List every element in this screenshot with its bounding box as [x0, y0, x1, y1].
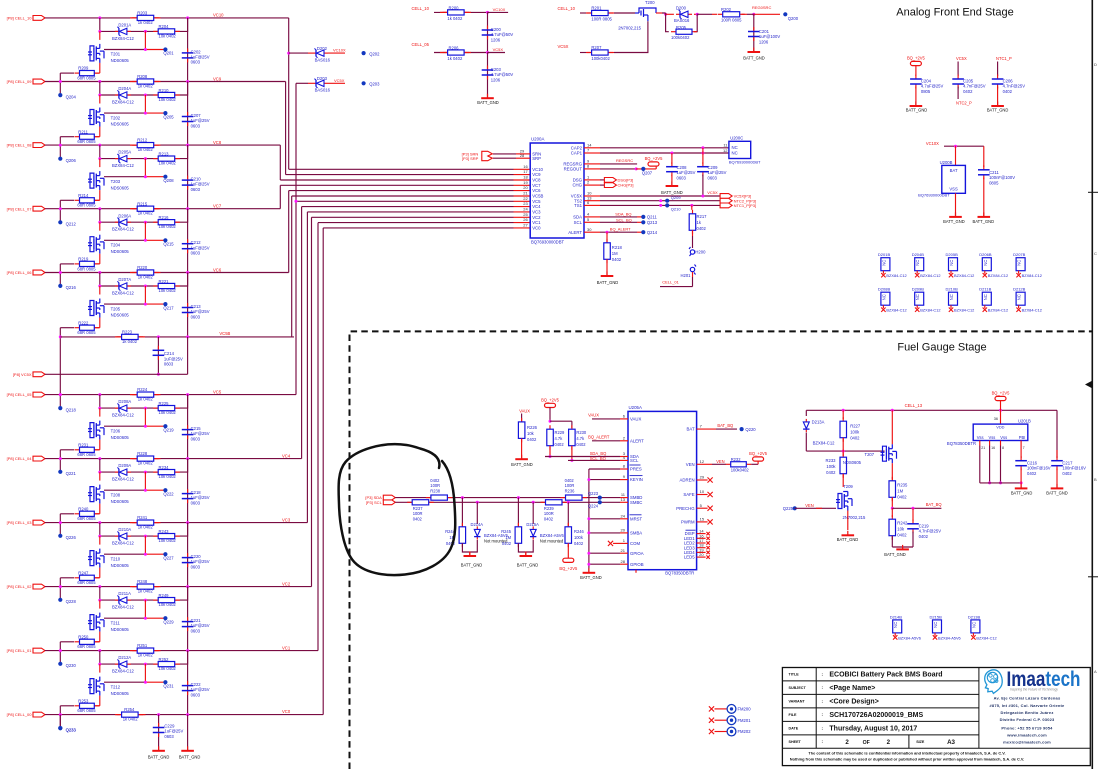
svg-text:BZX84-C12: BZX84-C12	[112, 477, 135, 482]
svg-text:0603: 0603	[191, 314, 201, 319]
svg-text:H201: H201	[680, 273, 691, 278]
svg-text:NDS0605: NDS0605	[843, 460, 862, 465]
svg-text:Q226: Q226	[66, 535, 77, 540]
svg-text:BATT_GND: BATT_GND	[1011, 491, 1033, 496]
svg-text:0402: 0402	[826, 470, 836, 475]
svg-text:R211: R211	[78, 129, 88, 134]
svg-text:0402: 0402	[502, 541, 512, 546]
svg-text:VC6: VC6	[532, 188, 541, 193]
svg-text:BZX84-C12: BZX84-C12	[112, 99, 135, 104]
svg-text:A3: A3	[947, 739, 955, 746]
svg-text:BZX84-C12: BZX84-C12	[886, 308, 906, 313]
svg-text:100k0402: 100k0402	[731, 467, 750, 472]
svg-text:CELL_01: CELL_01	[662, 280, 679, 285]
svg-text:NC: NC	[949, 294, 954, 300]
svg-text:SAFE: SAFE	[683, 492, 694, 497]
svg-text:NC: NC	[915, 294, 920, 300]
svg-text:KEYIN: KEYIN	[630, 477, 643, 482]
svg-text:36: 36	[994, 417, 998, 421]
svg-text:TS1: TS1	[574, 203, 582, 208]
svg-text:BATT_GND: BATT_GND	[973, 219, 995, 224]
svg-text:0402: 0402	[1027, 471, 1037, 476]
svg-text:0603: 0603	[191, 60, 201, 65]
svg-text:SIZE: SIZE	[916, 740, 925, 744]
svg-text:1M: 1M	[505, 535, 511, 540]
svg-text:NTC2_P: NTC2_P	[956, 100, 972, 105]
svg-text:NDS0605: NDS0605	[111, 563, 130, 568]
svg-text:BAS016: BAS016	[315, 88, 331, 93]
svg-text:1M: 1M	[612, 251, 618, 256]
svg-text:100k0402: 100k0402	[671, 35, 690, 40]
svg-text:SRP: SRP	[532, 156, 541, 161]
svg-text:BZX84-C12: BZX84-C12	[988, 308, 1008, 313]
svg-text:68R 0805: 68R 0805	[77, 330, 96, 335]
svg-text:1206: 1206	[759, 39, 769, 44]
svg-text:SCL: SCL	[630, 458, 639, 463]
svg-text:BZX84-C12: BZX84-C12	[1022, 308, 1042, 313]
svg-text:[P8] CELL_07: [P8] CELL_07	[7, 206, 33, 211]
svg-text:Q201: Q201	[163, 51, 174, 56]
svg-text:VAUX: VAUX	[630, 417, 642, 422]
svg-text:VC10: VC10	[532, 167, 543, 172]
svg-text:0402: 0402	[555, 442, 565, 447]
svg-text:0603: 0603	[191, 628, 201, 633]
svg-text:0402: 0402	[919, 534, 929, 539]
svg-text:BZX84-C12: BZX84-C12	[112, 605, 135, 610]
svg-text:0805: 0805	[989, 180, 999, 185]
svg-text:[P8] CELL_01: [P8] CELL_01	[7, 648, 33, 653]
svg-text:NC: NC	[1017, 260, 1022, 266]
svg-text:0603: 0603	[191, 187, 201, 192]
svg-text:1k 0402: 1k 0402	[123, 717, 139, 722]
svg-text:D: D	[1094, 62, 1097, 67]
svg-text:VC0: VC0	[282, 709, 291, 714]
svg-text:1k 0402: 1k 0402	[138, 84, 154, 89]
svg-text:NC: NC	[1017, 294, 1022, 300]
svg-text:BATT_GND: BATT_GND	[1046, 491, 1068, 496]
svg-text:T200: T200	[645, 0, 655, 5]
svg-text:Vss: Vss	[977, 435, 984, 440]
svg-text:CHG[P3]: CHG[P3]	[618, 183, 634, 188]
svg-text:VC3: VC3	[282, 517, 291, 522]
svg-text:R230: R230	[576, 430, 587, 435]
svg-text:Phone: +52 55 6719 9054: Phone: +52 55 6719 9054	[1001, 725, 1053, 730]
svg-text:T208: T208	[111, 492, 121, 497]
svg-text:U205A: U205A	[629, 405, 642, 410]
svg-text:[P8] CELL_03: [P8] CELL_03	[7, 520, 33, 525]
svg-text:VC0: VC0	[532, 226, 541, 231]
svg-text:0603: 0603	[191, 251, 201, 256]
svg-text:NDS0605: NDS0605	[111, 313, 130, 318]
svg-text:10k 0402: 10k 0402	[159, 474, 177, 479]
svg-text:BAT_BQ: BAT_BQ	[926, 502, 942, 507]
svg-text:T202: T202	[111, 115, 121, 120]
svg-text:R241: R241	[137, 515, 148, 520]
svg-text:VC2: VC2	[282, 581, 291, 586]
svg-text:BATT_GND: BATT_GND	[580, 575, 602, 580]
svg-text:12: 12	[723, 148, 728, 153]
svg-text:Not mounted: Not mounted	[540, 539, 564, 544]
svg-text:BQ_+2V5: BQ_+2V5	[541, 398, 560, 403]
svg-text:FM202: FM202	[738, 729, 752, 734]
svg-text:VAUX: VAUX	[588, 413, 599, 418]
svg-text:R204: R204	[159, 24, 170, 29]
svg-text:BZX84-C12: BZX84-C12	[112, 36, 135, 41]
svg-text:VC5B: VC5B	[532, 194, 543, 199]
svg-text:R249: R249	[159, 593, 170, 598]
svg-text:R240: R240	[78, 506, 89, 511]
svg-text:VEN: VEN	[805, 503, 813, 508]
svg-text:68R 0805: 68R 0805	[77, 76, 96, 81]
svg-text:Q228: Q228	[66, 599, 77, 604]
svg-text:D206B: D206B	[979, 252, 992, 257]
svg-text:ALERT: ALERT	[568, 230, 582, 235]
svg-text:VC10X: VC10X	[493, 7, 506, 12]
svg-text:CELL_05: CELL_05	[412, 42, 430, 47]
svg-text:NC: NC	[949, 260, 954, 266]
svg-text:0603: 0603	[164, 734, 174, 739]
svg-text:VC6: VC6	[213, 267, 222, 272]
svg-text:Q213: Q213	[647, 220, 658, 225]
svg-text:0402: 0402	[1003, 89, 1013, 94]
svg-text:BATT_GND: BATT_GND	[179, 755, 201, 760]
svg-text:BZX84-C12: BZX84-C12	[988, 273, 1008, 278]
svg-text:[P8] CELL_09: [P8] CELL_09	[7, 79, 33, 84]
svg-text:Q204: Q204	[66, 94, 77, 99]
svg-text:Q221: Q221	[66, 471, 77, 476]
svg-text:30: 30	[587, 227, 592, 232]
svg-text:T207: T207	[865, 452, 875, 457]
svg-text:Q222: Q222	[163, 491, 174, 496]
svg-text:4.7k: 4.7k	[555, 436, 564, 441]
svg-text:BATT_GND: BATT_GND	[148, 755, 170, 760]
svg-text:SCL_BQ: SCL_BQ	[616, 218, 632, 223]
svg-text:68R 0805: 68R 0805	[77, 139, 96, 144]
svg-text:Delegación Benito Juárez: Delegación Benito Juárez	[1001, 710, 1054, 715]
svg-text:1k 0402: 1k 0402	[138, 147, 154, 152]
svg-text:NTC1_P: NTC1_P	[996, 56, 1012, 61]
svg-text:SDA: SDA	[573, 215, 582, 220]
svg-text:NDS0605: NDS0605	[111, 627, 130, 632]
svg-text:Q215: Q215	[163, 242, 174, 247]
svg-text:Q218: Q218	[66, 407, 77, 412]
svg-text:VC8: VC8	[532, 178, 541, 183]
svg-text:BAT: BAT	[950, 168, 958, 173]
svg-text:NC: NC	[732, 145, 738, 150]
svg-text:BZX84-C12: BZX84-C12	[1022, 273, 1042, 278]
svg-text:C: C	[1094, 251, 1097, 256]
svg-text:68R 0805: 68R 0805	[77, 203, 96, 208]
svg-text:NDS0605: NDS0605	[111, 58, 130, 63]
svg-text:BATT_GND: BATT_GND	[943, 219, 965, 224]
svg-text:1k 0402: 1k 0402	[447, 16, 463, 21]
svg-text:10k 0402: 10k 0402	[159, 288, 177, 293]
svg-text:R209: R209	[78, 66, 89, 71]
svg-text:BZX84-C12: BZX84-C12	[886, 273, 906, 278]
svg-text:Q229: Q229	[163, 619, 174, 624]
svg-text:ALERT: ALERT	[630, 438, 644, 443]
svg-text:BATT_GND: BATT_GND	[461, 563, 483, 568]
svg-text:NDS0605: NDS0605	[111, 249, 130, 254]
svg-text:<Core Design>: <Core Design>	[829, 698, 878, 705]
svg-text:8: 8	[1002, 446, 1004, 450]
svg-text:BQ76930000DBT: BQ76930000DBT	[531, 240, 564, 245]
svg-text:10k 0402: 10k 0402	[159, 224, 177, 229]
svg-text:D214B: D214B	[890, 614, 903, 619]
svg-text:100k: 100k	[826, 464, 836, 469]
svg-text:0402: 0402	[574, 541, 584, 546]
svg-text:D201A: D201A	[118, 23, 131, 28]
svg-text:16: 16	[991, 446, 995, 450]
svg-text:CAP1: CAP1	[571, 151, 583, 156]
svg-text:BQ_+2V5: BQ_+2V5	[749, 451, 768, 456]
svg-text:D211B: D211B	[979, 287, 991, 292]
svg-text:68R 0805: 68R 0805	[77, 266, 96, 271]
svg-text:1206: 1206	[491, 77, 501, 82]
svg-text:T211: T211	[111, 620, 121, 625]
svg-text:R218: R218	[612, 245, 623, 250]
svg-text:R216: R216	[159, 215, 170, 220]
svg-text:BQ_ALERT: BQ_ALERT	[610, 227, 631, 232]
svg-text:R214: R214	[78, 193, 89, 198]
svg-text:VC8: VC8	[213, 140, 222, 145]
svg-text:25: 25	[523, 212, 528, 217]
svg-text:NC: NC	[732, 150, 738, 155]
svg-text:0402: 0402	[963, 89, 973, 94]
svg-text:1M: 1M	[897, 489, 903, 494]
svg-text:R205: R205	[676, 25, 687, 30]
svg-text:R213: R213	[159, 151, 170, 156]
svg-text:GPIOA: GPIOA	[630, 551, 644, 556]
svg-text:10k: 10k	[897, 527, 905, 532]
svg-text:R207: R207	[591, 45, 602, 50]
svg-text:R229: R229	[555, 430, 566, 435]
svg-text:BZX84-C12: BZX84-C12	[954, 273, 974, 278]
svg-text:0603: 0603	[191, 564, 201, 569]
svg-text:BATT_GND: BATT_GND	[511, 462, 533, 467]
svg-text:R219: R219	[78, 257, 89, 262]
svg-text:BQ_+2V5: BQ_+2V5	[907, 56, 926, 61]
svg-text:Q207: Q207	[642, 170, 653, 175]
svg-text:Q203: Q203	[369, 82, 380, 87]
svg-text:100R 0805: 100R 0805	[591, 16, 612, 21]
svg-text:[P8] CELL_08: [P8] CELL_08	[7, 143, 33, 148]
svg-text:68R 0805: 68R 0805	[77, 708, 96, 713]
svg-text:BATT_GND: BATT_GND	[987, 108, 1009, 113]
svg-text:D205A: D205A	[118, 150, 131, 155]
svg-text:19: 19	[523, 180, 528, 185]
svg-text:D203: D203	[317, 76, 328, 81]
svg-text:R212: R212	[137, 138, 148, 143]
svg-text:10k: 10k	[527, 431, 535, 436]
svg-text:mexico@imaatech.com: mexico@imaatech.com	[1003, 740, 1051, 745]
svg-text:VSS: VSS	[949, 187, 958, 192]
svg-text:T203: T203	[111, 179, 121, 184]
svg-text:VC5X: VC5X	[493, 47, 504, 52]
svg-text:0603: 0603	[677, 175, 687, 180]
svg-text:[P8] CELL_10: [P8] CELL_10	[7, 16, 33, 21]
svg-text:BQ_ALERT: BQ_ALERT	[588, 435, 610, 440]
svg-text:D207A: D207A	[118, 277, 131, 282]
svg-text:21: 21	[523, 191, 528, 196]
svg-text:[P3] SCL: [P3] SCL	[366, 500, 383, 505]
svg-text:BZX84-C12: BZX84-C12	[813, 441, 836, 446]
svg-text:20: 20	[699, 552, 704, 557]
svg-text:VC9: VC9	[213, 76, 222, 81]
svg-text:BQ78350DBTR: BQ78350DBTR	[665, 571, 694, 576]
svg-text:VC5X: VC5X	[558, 44, 569, 49]
svg-text:NC: NC	[893, 622, 898, 628]
svg-text:68R 0805: 68R 0805	[77, 516, 96, 521]
svg-text:H200: H200	[695, 250, 706, 255]
svg-text:Analog Front End Stage: Analog Front End Stage	[896, 7, 1013, 19]
svg-text:28: 28	[621, 559, 626, 564]
svg-text:VEN: VEN	[716, 459, 724, 464]
svg-text:1k 0402: 1k 0402	[122, 339, 138, 344]
svg-text:0402: 0402	[576, 442, 586, 447]
svg-text:#875, Int #301, Col. Narvarte: #875, Int #301, Col. Narvarte Oriente	[990, 703, 1066, 708]
svg-text:BATT_GND: BATT_GND	[477, 100, 499, 105]
svg-text:REGOUT: REGOUT	[564, 167, 583, 172]
svg-text:Q224: Q224	[588, 504, 599, 509]
svg-text:B: B	[1094, 477, 1097, 482]
svg-text:Q209: Q209	[671, 195, 682, 200]
svg-text:T212: T212	[111, 684, 121, 689]
svg-text:D208A: D208A	[118, 399, 131, 404]
svg-text:R208: R208	[137, 74, 148, 79]
svg-text:68R 0805: 68R 0805	[77, 452, 96, 457]
svg-text:BZX84-C12: BZX84-C12	[920, 308, 940, 313]
svg-text:21: 21	[981, 446, 985, 450]
svg-text:U200A: U200A	[531, 137, 544, 142]
svg-text:15: 15	[700, 517, 705, 522]
svg-text:Distrito Federal C.P. 03023: Distrito Federal C.P. 03023	[1000, 717, 1055, 722]
svg-text:VC4: VC4	[532, 204, 541, 209]
svg-text:100k: 100k	[574, 535, 584, 540]
svg-text:VC9: VC9	[532, 172, 541, 177]
svg-text:NTC1_P[P3]: NTC1_P[P3]	[734, 203, 756, 208]
svg-text:R235: R235	[897, 483, 908, 488]
svg-text:BZX84-C12: BZX84-C12	[920, 273, 940, 278]
svg-text:BZX84-C12: BZX84-C12	[112, 163, 135, 168]
svg-text:Q205: Q205	[163, 114, 174, 119]
svg-text:VC1: VC1	[532, 220, 541, 225]
svg-text:R248: R248	[137, 579, 148, 584]
svg-text:Q202: Q202	[369, 51, 380, 56]
svg-text:1k 0402: 1k 0402	[138, 211, 154, 216]
svg-text:0402: 0402	[850, 435, 860, 440]
svg-text:D204B: D204B	[912, 252, 925, 257]
svg-text:R232: R232	[731, 457, 742, 462]
svg-text:R245: R245	[501, 529, 512, 534]
svg-text:PRES: PRES	[630, 467, 642, 472]
svg-text:BATT_GND: BATT_GND	[906, 108, 928, 113]
svg-text:NDS0605: NDS0605	[111, 122, 130, 127]
svg-text:A: A	[1094, 669, 1097, 674]
svg-text:29: 29	[700, 475, 705, 480]
svg-text:0805: 0805	[921, 89, 931, 94]
svg-text:LED5: LED5	[684, 555, 695, 560]
svg-text:D209A: D209A	[118, 463, 131, 468]
svg-text:R250: R250	[78, 634, 89, 639]
svg-text:0402: 0402	[413, 516, 423, 521]
svg-text:FM200: FM200	[738, 707, 752, 712]
svg-text:U201B: U201B	[1018, 419, 1031, 424]
svg-text:[P8] CELL_02: [P8] CELL_02	[7, 584, 33, 589]
svg-text:PBI: PBI	[1019, 435, 1026, 440]
svg-text:Inspiring the Future of Techno: Inspiring the Future of Technology	[1010, 688, 1058, 692]
svg-text:VC10X: VC10X	[333, 48, 346, 53]
svg-text:D208B: D208B	[878, 287, 891, 292]
svg-text:16: 16	[523, 164, 528, 169]
svg-text:NDS0605: NDS0605	[111, 499, 130, 504]
svg-text:BZX84-A5V6: BZX84-A5V6	[540, 533, 565, 538]
svg-text:VC10: VC10	[213, 13, 224, 18]
svg-text:R236: R236	[565, 488, 576, 493]
svg-text:0402: 0402	[897, 495, 907, 500]
svg-text:NC: NC	[933, 622, 938, 628]
svg-text:T204: T204	[111, 243, 121, 248]
svg-text:NDS0605: NDS0605	[111, 435, 130, 440]
svg-text:Q214: Q214	[647, 230, 658, 235]
svg-text:17: 17	[523, 169, 528, 174]
svg-text:2: 2	[887, 739, 891, 746]
svg-text:D215A: D215A	[526, 522, 539, 527]
svg-text:SMBC: SMBC	[630, 500, 642, 505]
svg-text:BATT_GND: BATT_GND	[517, 563, 539, 568]
svg-text:TITLE: TITLE	[789, 673, 800, 677]
svg-text:1k 0402: 1k 0402	[138, 653, 154, 658]
svg-text:Vss: Vss	[989, 435, 996, 440]
svg-text:MRST: MRST	[630, 516, 643, 521]
svg-text:D202: D202	[317, 46, 328, 51]
svg-text:24: 24	[523, 207, 528, 212]
svg-text:BZX84-C12: BZX84-C12	[976, 635, 996, 640]
svg-text:0402: 0402	[697, 226, 707, 231]
svg-text:VC2: VC2	[532, 215, 541, 220]
svg-text:VC7: VC7	[532, 183, 541, 188]
svg-text:BZX84-C12: BZX84-C12	[112, 541, 135, 546]
svg-text:COM: COM	[630, 541, 640, 546]
svg-text:R238: R238	[430, 488, 441, 493]
svg-text:BATT_GND: BATT_GND	[884, 552, 906, 557]
svg-text:REG0SRC: REG0SRC	[752, 5, 771, 10]
svg-text:2N7002,215: 2N7002,215	[618, 26, 641, 31]
svg-text:D204A: D204A	[118, 86, 131, 91]
svg-text:T210: T210	[111, 556, 121, 561]
svg-text:Q233: Q233	[66, 727, 77, 732]
svg-text:VC5: VC5	[532, 199, 541, 204]
svg-text:21: 21	[621, 548, 626, 553]
svg-text:PRECHG: PRECHG	[676, 506, 695, 511]
svg-text:VC4: VC4	[282, 453, 291, 458]
svg-text:D211A: D211A	[118, 591, 131, 596]
svg-text:VC5X: VC5X	[956, 56, 967, 61]
svg-text:1k 0402: 1k 0402	[138, 589, 154, 594]
svg-text:ECOBICI Battery Pack BMS Board: ECOBICI Battery Pack BMS Board	[829, 672, 942, 679]
svg-text:R233: R233	[825, 458, 836, 463]
svg-text:BAS016: BAS016	[674, 18, 690, 23]
svg-text:0603: 0603	[164, 362, 174, 367]
svg-text:CELL_10: CELL_10	[412, 6, 430, 11]
svg-text:Q227: Q227	[163, 555, 174, 560]
svg-text:U200B: U200B	[940, 160, 953, 165]
svg-text:20: 20	[523, 185, 528, 190]
svg-text:R201: R201	[591, 6, 602, 11]
svg-text:BQ78350DBTR: BQ78350DBTR	[947, 441, 976, 446]
svg-text:VDD: VDD	[996, 425, 1004, 430]
svg-text:10k 0402: 10k 0402	[159, 410, 177, 415]
